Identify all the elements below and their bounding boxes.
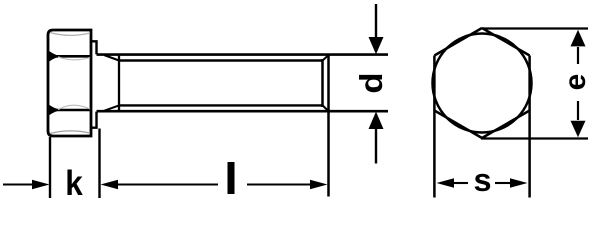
svg-text:e: e [559, 74, 592, 91]
e bottom extension line [481, 137, 588, 139]
s dimension line left segment [454, 182, 468, 184]
head chamfer wedge upper [49, 51, 60, 61]
hexagon right flat + s right extension line [528, 56, 531, 198]
l arrow right (points right) [310, 180, 328, 190]
head chamfer arc middle facet upper [58, 57, 90, 60]
k arrow left (points right) [32, 180, 50, 190]
d arrow bottom (points up) [369, 112, 384, 129]
e arrow top (points up) [571, 30, 586, 47]
head chamfer wedge lower [49, 105, 60, 115]
thread root line upper [119, 59, 323, 61]
svg-text:k: k [65, 164, 83, 200]
k dimension tail line left [3, 183, 33, 185]
k left extension line [49, 137, 51, 198]
shank top line + d extension [97, 53, 389, 56]
tip chamfer diagonals [323, 55, 329, 111]
thread runout diagonal lower [104, 105, 119, 110]
bolt head outline (side view) [48, 30, 91, 136]
d leader line top [375, 4, 377, 39]
inscribed chamfer circle [433, 34, 532, 133]
head chamfer arc bottom facet [50, 131, 90, 134]
l label [228, 162, 235, 194]
e top extension line [482, 27, 588, 29]
s arrow left (points left) [437, 178, 455, 188]
svg-text:s: s [473, 162, 491, 198]
d arrow top (points down) [369, 37, 384, 54]
shank bottom line + d extension [97, 110, 389, 113]
s dimension line right segment [495, 182, 510, 184]
thread runout diagonal upper [104, 55, 119, 61]
k right extension line [98, 129, 100, 199]
bolt tip face + l right extension line [327, 55, 330, 197]
hexagon lower-left edge [434, 111, 482, 139]
washer face [92, 41, 97, 127]
hexagon upper-left edge [434, 28, 482, 56]
l dimension line left segment [118, 183, 218, 185]
hexagon lower-right edge [482, 111, 530, 139]
k/l shared arrow (points left at k right ext) [101, 180, 119, 190]
hexagon left flat + s left extension line [433, 56, 436, 198]
head facet line upper [48, 55, 91, 58]
head chamfer arc top facet [50, 33, 90, 36]
tip thread edge vertical [321, 59, 324, 107]
head facet line lower [48, 109, 91, 112]
hexagon upper-right edge [482, 28, 530, 56]
svg-text:d: d [355, 72, 390, 93]
e dimension line lower segment [577, 101, 579, 120]
l dimension line right segment [247, 183, 310, 185]
d leader line bottom [375, 129, 377, 164]
thread root line lower [119, 104, 323, 106]
e arrow bottom (points down) [571, 121, 586, 138]
head chamfer arc middle facet lower [58, 105, 90, 109]
s arrow right (points right) [510, 178, 528, 188]
e dimension line upper segment [577, 47, 579, 64]
thread end vertical line [118, 56, 120, 111]
